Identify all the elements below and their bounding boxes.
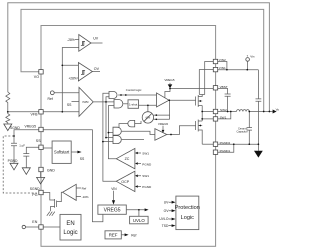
svg-text:SGND: SGND (30, 187, 40, 191)
svg-text:Control logic: Control logic (126, 88, 142, 92)
svg-text:Ref: Ref (131, 233, 136, 237)
svg-text:SS: SS (36, 139, 41, 143)
svg-text:Protection: Protection (175, 205, 200, 211)
svg-text:VBST: VBST (220, 85, 228, 89)
svg-text:SGND: SGND (10, 126, 20, 130)
svg-text:1 µF: 1 µF (19, 143, 25, 147)
svg-text:OV: OV (164, 209, 170, 213)
svg-text:PGND2: PGND2 (220, 141, 231, 145)
svg-text:VIN: VIN (111, 187, 117, 191)
svg-text:PGND: PGND (142, 185, 152, 189)
svg-text:UV: UV (93, 37, 99, 41)
svg-text:VREG5: VREG5 (25, 125, 37, 129)
svg-text:EN: EN (66, 221, 74, 227)
svg-text:PGND1: PGND1 (220, 149, 231, 153)
svg-text:tON: tON (146, 115, 151, 119)
svg-text:VIN2: VIN2 (219, 58, 226, 62)
svg-text:Capacitor: Capacitor (236, 129, 247, 133)
svg-text:Ref: Ref (82, 186, 87, 190)
svg-text:SS: SS (80, 157, 85, 161)
svg-text:UV: UV (164, 200, 169, 204)
svg-text:Ref: Ref (48, 97, 53, 101)
svg-text:SS: SS (67, 103, 72, 107)
svg-text:-28%: -28% (67, 38, 75, 42)
svg-text:OV: OV (94, 67, 100, 71)
svg-text:PGND: PGND (142, 163, 152, 167)
svg-text:ZC: ZC (125, 157, 130, 161)
svg-text:SW1: SW1 (220, 115, 227, 119)
svg-text:+28%: +28% (68, 76, 76, 80)
svg-text:VREG5: VREG5 (104, 208, 121, 214)
svg-text:SW1: SW1 (142, 151, 149, 155)
svg-text:REF: REF (109, 233, 118, 238)
svg-text:VREG5: VREG5 (164, 78, 175, 82)
svg-text:Logic: Logic (63, 230, 77, 236)
svg-text:PGND: PGND (8, 159, 18, 163)
svg-text:OCP: OCP (121, 180, 129, 184)
svg-text:Vo: Vo (276, 107, 279, 111)
svg-text:VO: VO (34, 75, 39, 79)
svg-text:Logic: Logic (181, 215, 195, 221)
svg-text:EN: EN (32, 220, 37, 224)
svg-text:Softstart: Softstart (54, 150, 70, 155)
svg-text:PG: PG (32, 193, 37, 197)
svg-text:SW2: SW2 (220, 108, 227, 112)
svg-text:GND: GND (47, 168, 55, 172)
svg-text:VIN1: VIN1 (219, 66, 226, 70)
svg-text:-10%: -10% (82, 195, 89, 199)
svg-text:SW1: SW1 (142, 174, 149, 178)
svg-text:UVLO: UVLO (159, 217, 168, 221)
svg-text:Vin: Vin (250, 55, 255, 59)
svg-text:1-shot: 1-shot (129, 102, 138, 106)
svg-text:VREG5: VREG5 (158, 122, 169, 126)
svg-text:UVLO: UVLO (133, 218, 146, 223)
svg-text:PWM: PWM (83, 101, 89, 104)
svg-text:VFB: VFB (31, 112, 39, 116)
svg-text:TSD: TSD (162, 224, 169, 228)
